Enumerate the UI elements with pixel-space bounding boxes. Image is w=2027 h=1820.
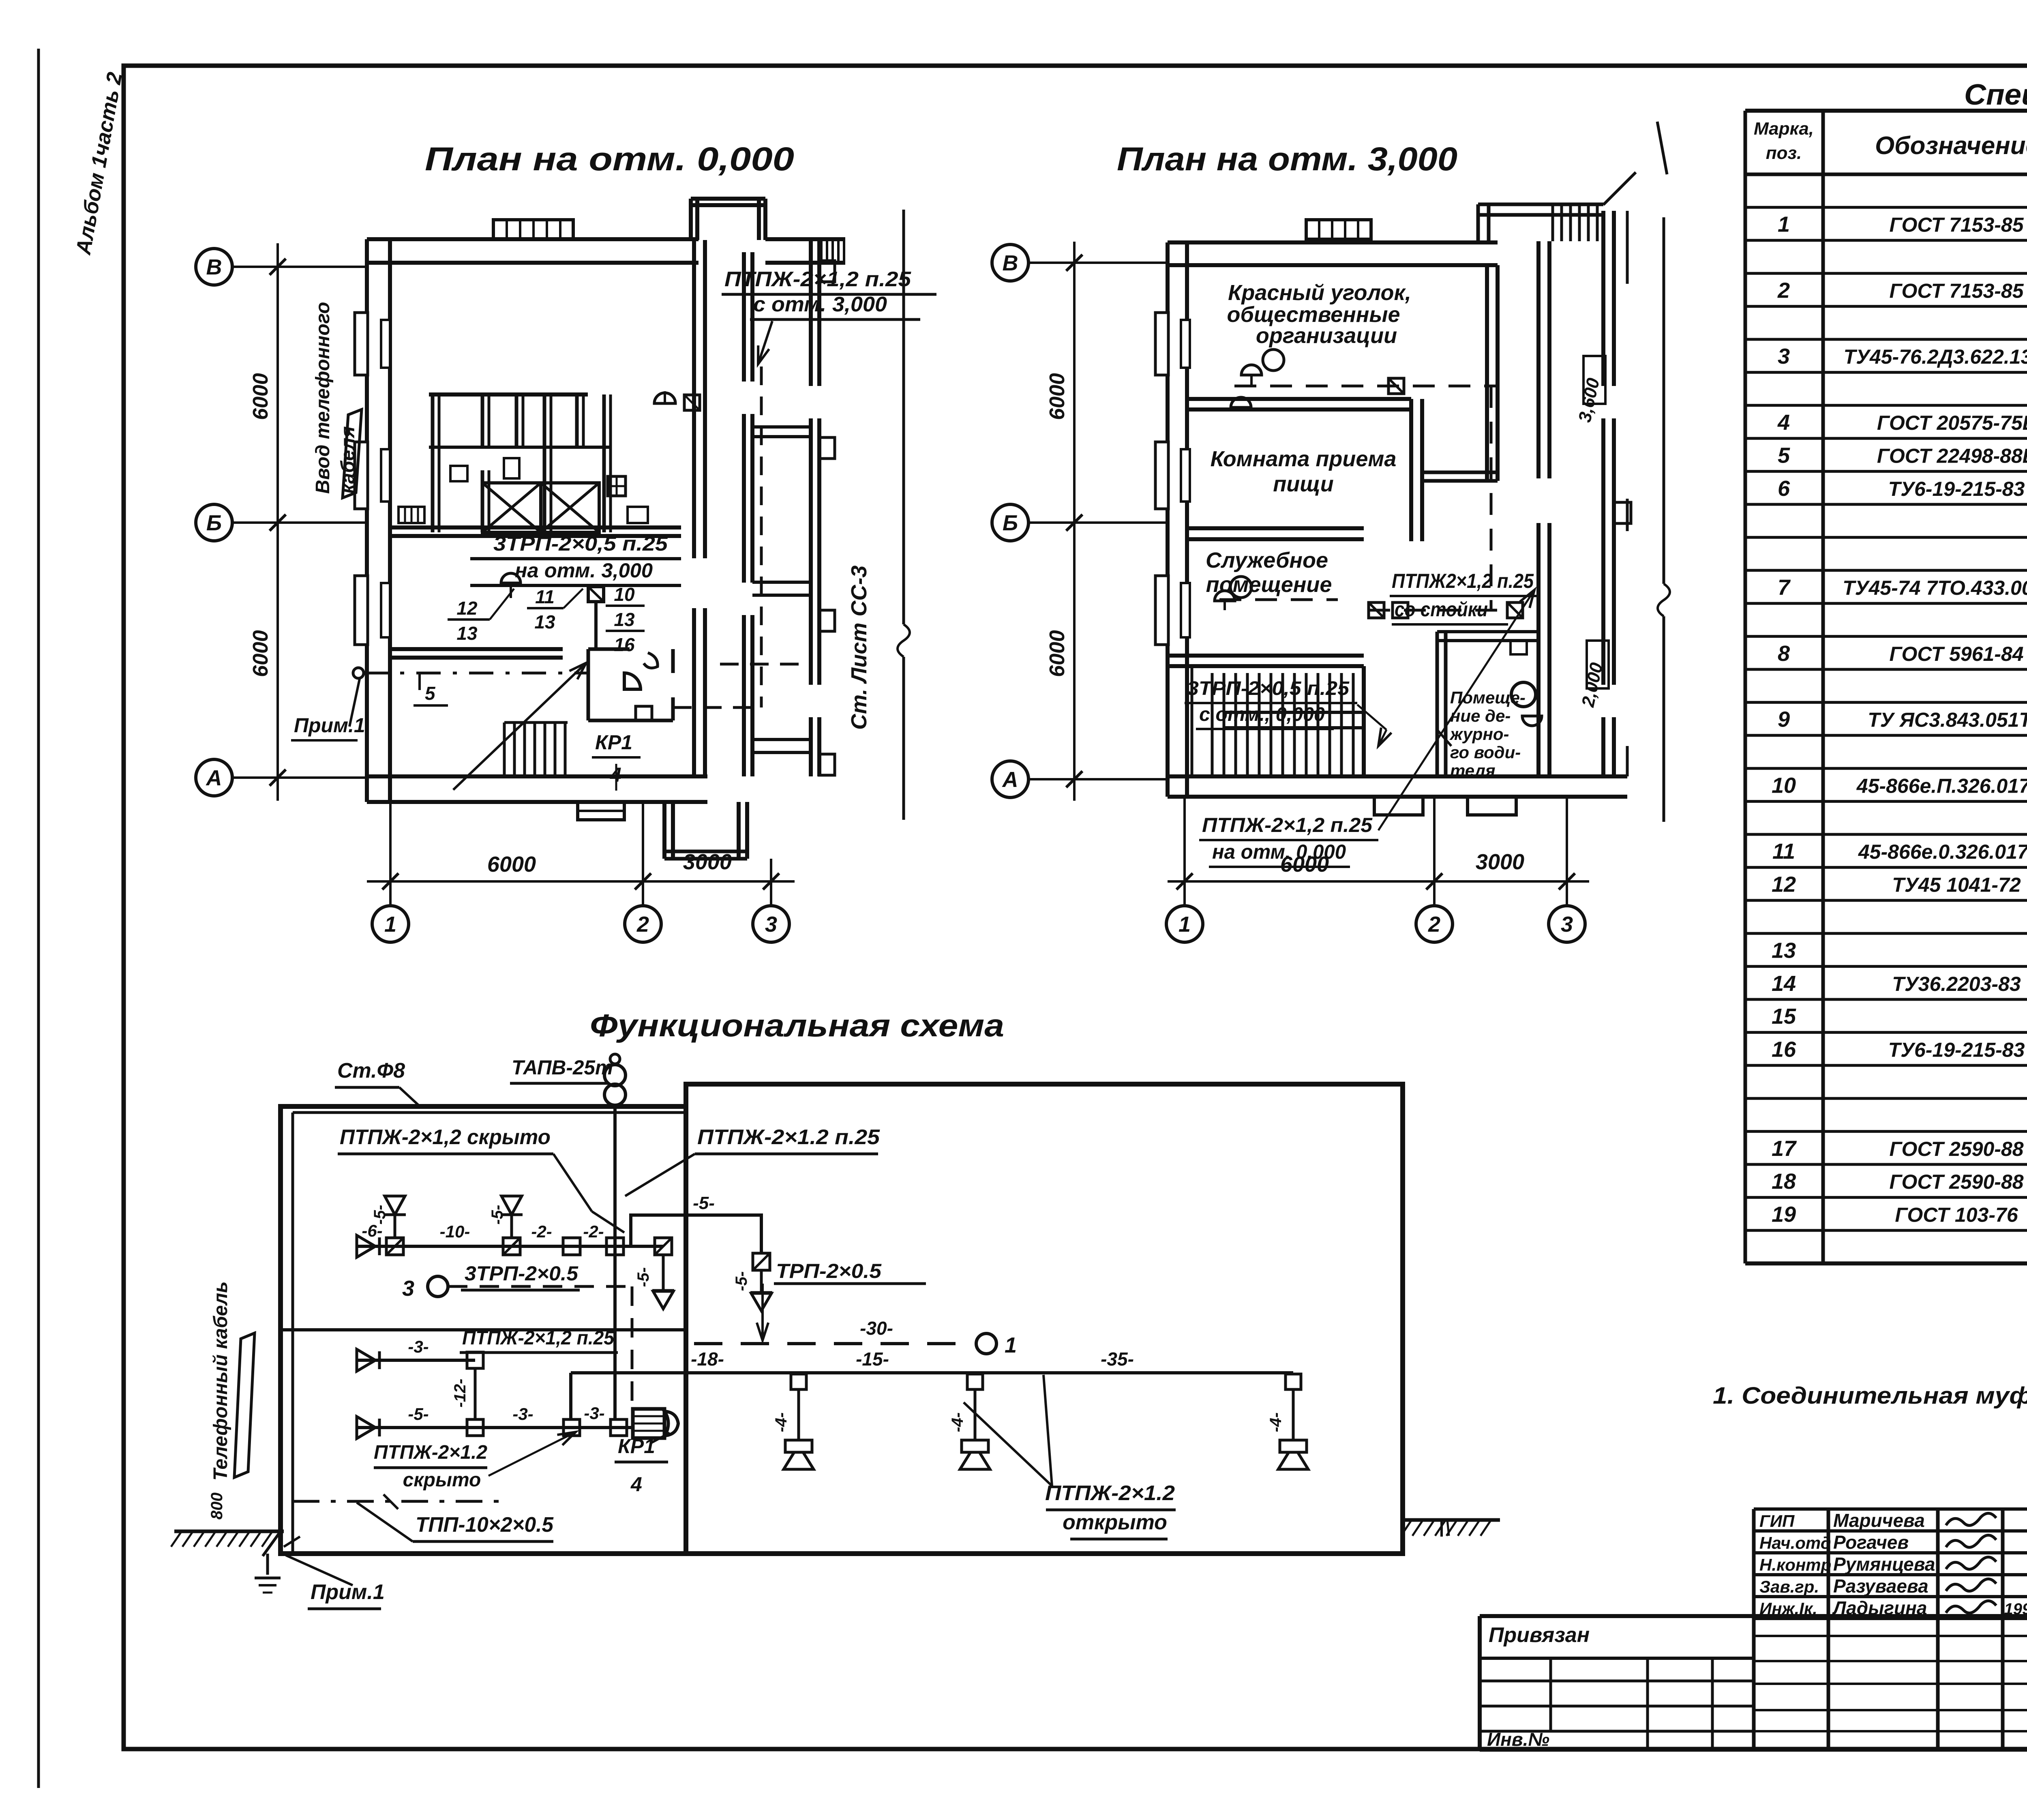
svg-text:ТУ45-76.2Д3.622.136ТУ: ТУ45-76.2Д3.622.136ТУ xyxy=(1844,345,2027,368)
svg-text:6000: 6000 xyxy=(1046,373,1069,420)
svg-text:4: 4 xyxy=(1777,410,1790,435)
svg-text:45-866е.П.326.017ТУ: 45-866е.П.326.017ТУ xyxy=(1856,774,2027,797)
svg-text:ПТПЖ-2×1,2 п.25: ПТПЖ-2×1,2 п.25 xyxy=(724,268,911,291)
svg-text:45-866е.0.326.017ТУ: 45-866е.0.326.017ТУ xyxy=(1858,840,2027,863)
svg-text:6000: 6000 xyxy=(249,630,272,677)
svg-text:19: 19 xyxy=(1772,1203,1796,1227)
svg-text:13: 13 xyxy=(614,609,635,630)
svg-text:-4-: -4- xyxy=(772,1413,790,1432)
svg-text:-5-: -5- xyxy=(408,1404,429,1423)
svg-text:9: 9 xyxy=(1778,707,1790,732)
svg-text:Румянцева: Румянцева xyxy=(1833,1554,1935,1575)
svg-text:Б: Б xyxy=(206,511,222,535)
svg-text:Привязан: Привязан xyxy=(1489,1623,1590,1647)
svg-text:теля: теля xyxy=(1450,761,1496,780)
svg-text:16: 16 xyxy=(614,634,635,655)
svg-text:Б: Б xyxy=(1003,511,1018,535)
svg-text:18: 18 xyxy=(1772,1169,1796,1194)
svg-text:журно-: журно- xyxy=(1449,725,1509,744)
svg-text:ПТПЖ-2×1,2 п.25: ПТПЖ-2×1,2 п.25 xyxy=(1202,814,1373,836)
svg-text:5: 5 xyxy=(425,683,436,704)
svg-text:Марка,: Марка, xyxy=(1754,119,1814,139)
svg-text:с отм. 3,000: с отм. 3,000 xyxy=(753,293,887,316)
svg-text:4: 4 xyxy=(630,1473,642,1496)
svg-text:3000: 3000 xyxy=(683,850,732,874)
svg-text:ПТПЖ2×1,2 п.25: ПТПЖ2×1,2 п.25 xyxy=(1392,570,1534,592)
svg-text:ПТПЖ-2×1,2 п.25: ПТПЖ-2×1,2 п.25 xyxy=(462,1327,615,1349)
svg-text:на отм. 3,000: на отм. 3,000 xyxy=(515,559,653,582)
svg-text:12: 12 xyxy=(456,598,478,619)
svg-text:Обозначение: Обозначение xyxy=(1875,132,2027,160)
svg-text:А: А xyxy=(206,766,222,790)
svg-text:ТУ36.2203-83: ТУ36.2203-83 xyxy=(1892,973,2021,995)
svg-text:15: 15 xyxy=(1772,1004,1796,1029)
svg-text:КР1: КР1 xyxy=(618,1435,655,1458)
svg-text:2: 2 xyxy=(1428,912,1440,937)
svg-text:открыто: открыто xyxy=(1063,1511,1167,1534)
svg-text:1: 1 xyxy=(1778,212,1790,237)
svg-text:Н.контр: Н.контр xyxy=(1759,1555,1831,1574)
svg-text:-5-: -5- xyxy=(489,1205,506,1225)
svg-text:3: 3 xyxy=(765,912,777,937)
svg-text:План на отм. 0,000: План на отм. 0,000 xyxy=(425,141,794,178)
svg-text:помещение: помещение xyxy=(1206,572,1332,597)
svg-text:2,000: 2,000 xyxy=(1578,661,1607,709)
svg-text:пищи: пищи xyxy=(1273,472,1333,496)
svg-text:3000: 3000 xyxy=(1476,850,1524,874)
svg-text:ГОСТ 22498-88Е: ГОСТ 22498-88Е xyxy=(1877,444,2027,467)
svg-text:3: 3 xyxy=(1561,912,1573,937)
svg-text:800: 800 xyxy=(208,1492,226,1520)
svg-text:Разуваева: Разуваева xyxy=(1833,1576,1928,1597)
svg-text:3ТРП-2×0.5: 3ТРП-2×0.5 xyxy=(465,1262,579,1285)
svg-text:10: 10 xyxy=(614,584,635,605)
svg-text:1. Соединительная муфта выби: 1. Соединительная муфта выбирается при п… xyxy=(1713,1383,2027,1409)
svg-text:ГОСТ 103-76: ГОСТ 103-76 xyxy=(1895,1204,2018,1226)
svg-text:-5-: -5- xyxy=(693,1193,715,1213)
svg-text:ПТПЖ-2×1.2: ПТПЖ-2×1.2 xyxy=(1045,1481,1175,1505)
svg-text:-15-: -15- xyxy=(856,1348,889,1370)
svg-text:Красный уголок,: Красный уголок, xyxy=(1228,281,1411,305)
svg-text:Телефонный кабель: Телефонный кабель xyxy=(210,1281,231,1481)
svg-text:Служебное: Служебное xyxy=(1206,548,1328,572)
svg-text:Комната приема: Комната приема xyxy=(1211,447,1397,471)
svg-text:ГОСТ 2590-88: ГОСТ 2590-88 xyxy=(1889,1170,2023,1193)
svg-text:ГИП: ГИП xyxy=(1759,1511,1795,1531)
svg-text:на отм. 0,000: на отм. 0,000 xyxy=(1212,840,1346,863)
svg-text:ТУ45-74 7ТО.433.004ТУ: ТУ45-74 7ТО.433.004ТУ xyxy=(1843,577,2027,599)
svg-text:-4-: -4- xyxy=(949,1413,966,1432)
svg-text:А: А xyxy=(1002,767,1018,792)
svg-text:ние де-: ние де- xyxy=(1450,706,1511,725)
svg-text:Функциональная схема: Функциональная схема xyxy=(590,1008,1004,1043)
svg-text:Спецификация: Спецификация xyxy=(1964,79,2027,111)
svg-text:ПТПЖ-2×1.2: ПТПЖ-2×1.2 xyxy=(374,1442,487,1463)
svg-text:13: 13 xyxy=(534,611,555,632)
svg-text:ГОСТ 5961-84: ГОСТ 5961-84 xyxy=(1889,643,2023,665)
svg-text:6000: 6000 xyxy=(1046,630,1069,677)
svg-text:го води-: го води- xyxy=(1450,743,1521,762)
svg-text:-3-: -3- xyxy=(584,1404,604,1423)
svg-text:5: 5 xyxy=(1778,443,1790,467)
svg-text:13: 13 xyxy=(456,623,478,644)
svg-text:-5-: -5- xyxy=(733,1271,750,1291)
svg-text:3: 3 xyxy=(402,1276,414,1301)
svg-text:1: 1 xyxy=(384,912,396,937)
svg-text:3: 3 xyxy=(1778,344,1790,369)
svg-text:-18-: -18- xyxy=(691,1348,724,1370)
svg-text:Нач.отд: Нач.отд xyxy=(1759,1533,1831,1552)
svg-text:12: 12 xyxy=(1772,872,1796,897)
svg-text:-12-: -12- xyxy=(451,1378,469,1407)
svg-text:ПТПЖ-2×1.2 п.25: ПТПЖ-2×1.2 п.25 xyxy=(697,1125,880,1149)
svg-text:3ТРП-2×0,5 п.25: 3ТРП-2×0,5 п.25 xyxy=(493,532,668,555)
svg-text:КР1: КР1 xyxy=(595,731,632,754)
svg-text:Инв.№: Инв.№ xyxy=(1487,1729,1549,1750)
svg-text:ТПП-10×2×0.5: ТПП-10×2×0.5 xyxy=(416,1513,554,1537)
svg-text:6000: 6000 xyxy=(249,373,272,420)
svg-text:17: 17 xyxy=(1772,1136,1797,1161)
svg-text:Альбом 1часть 2: Альбом 1часть 2 xyxy=(71,71,127,257)
svg-text:ТУ45 1041-72: ТУ45 1041-72 xyxy=(1892,874,2021,896)
svg-text:Прим.1: Прим.1 xyxy=(294,714,365,737)
svg-text:В: В xyxy=(206,255,222,279)
svg-text:общественные: общественные xyxy=(1227,302,1400,327)
svg-text:13: 13 xyxy=(1772,938,1796,963)
svg-text:скрыто: скрыто xyxy=(403,1469,481,1491)
svg-text:3ТРП-2×0,5 п.25: 3ТРП-2×0,5 п.25 xyxy=(1187,678,1350,699)
svg-text:Ст.Ф8: Ст.Ф8 xyxy=(337,1059,405,1083)
svg-text:Ст. Лист СС-3: Ст. Лист СС-3 xyxy=(847,566,871,730)
svg-text:ГОСТ 7153-85: ГОСТ 7153-85 xyxy=(1889,214,2024,236)
svg-text:ТУ6-19-215-83: ТУ6-19-215-83 xyxy=(1888,1039,2025,1061)
svg-text:14: 14 xyxy=(1772,971,1796,996)
svg-text:1: 1 xyxy=(1005,1333,1017,1357)
svg-text:организации: организации xyxy=(1256,324,1397,348)
svg-text:ТУ6-19-215-83: ТУ6-19-215-83 xyxy=(1888,478,2025,500)
svg-text:ТАПВ-25т: ТАПВ-25т xyxy=(512,1056,613,1079)
svg-text:ТУ ЯС3.843.051ТУ: ТУ ЯС3.843.051ТУ xyxy=(1868,709,2027,731)
svg-text:-2-: -2- xyxy=(583,1222,604,1241)
svg-text:В: В xyxy=(1003,251,1018,275)
svg-text:ПТПЖ-2×1,2 скрыто: ПТПЖ-2×1,2 скрыто xyxy=(340,1125,551,1149)
svg-text:ГОСТ 20575-75Е: ГОСТ 20575-75Е xyxy=(1877,412,2027,434)
svg-text:ТРП-2×0.5: ТРП-2×0.5 xyxy=(776,1260,882,1282)
svg-text:Зав.гр.: Зав.гр. xyxy=(1759,1577,1819,1596)
svg-text:2: 2 xyxy=(1777,278,1790,302)
svg-text:ГОСТ 7153-85: ГОСТ 7153-85 xyxy=(1889,279,2024,302)
svg-text:Рогачев: Рогачев xyxy=(1833,1532,1909,1553)
svg-text:1: 1 xyxy=(1178,912,1191,937)
svg-text:-2-: -2- xyxy=(531,1222,552,1241)
svg-text:-5-: -5- xyxy=(371,1205,389,1225)
svg-text:-3-: -3- xyxy=(408,1337,429,1356)
svg-text:со стойки: со стойки xyxy=(1395,598,1488,621)
svg-text:ГОСТ 2590-88: ГОСТ 2590-88 xyxy=(1889,1138,2023,1160)
svg-text:-3-: -3- xyxy=(512,1404,533,1423)
svg-text:7: 7 xyxy=(1778,575,1791,600)
svg-text:11: 11 xyxy=(535,586,555,607)
svg-text:Ввод телефонного: Ввод телефонного xyxy=(312,302,334,494)
svg-text:с отм., 0,000: с отм., 0,000 xyxy=(1199,704,1325,725)
svg-text:2: 2 xyxy=(636,912,649,937)
svg-text:-10-: -10- xyxy=(440,1222,470,1241)
svg-text:10: 10 xyxy=(1772,773,1796,797)
svg-text:6000: 6000 xyxy=(487,852,536,877)
svg-text:-4-: -4- xyxy=(1267,1413,1285,1432)
svg-text:-30-: -30- xyxy=(860,1318,893,1339)
svg-text:6: 6 xyxy=(1778,476,1790,501)
svg-text:8: 8 xyxy=(1778,641,1790,666)
svg-text:-5-: -5- xyxy=(634,1267,652,1287)
svg-text:3,600: 3,600 xyxy=(1575,376,1603,424)
svg-text:11: 11 xyxy=(1772,839,1795,864)
svg-text:поз.: поз. xyxy=(1766,143,1802,163)
svg-text:16: 16 xyxy=(1772,1038,1796,1062)
svg-text:-35-: -35- xyxy=(1101,1348,1134,1370)
svg-text:План на отм. 3,000: План на отм. 3,000 xyxy=(1117,141,1457,178)
svg-text:Маричева: Маричева xyxy=(1833,1510,1925,1531)
